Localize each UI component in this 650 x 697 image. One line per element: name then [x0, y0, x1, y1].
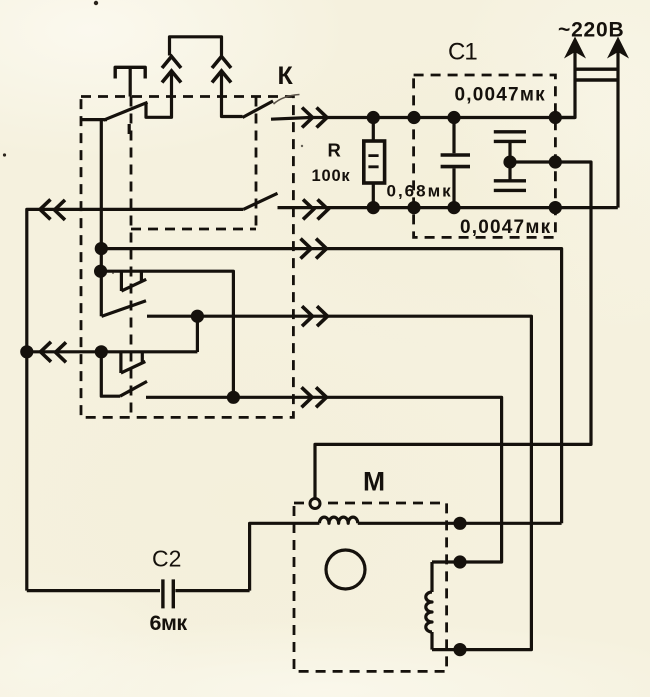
svg-text:~220В: ~220В [558, 19, 624, 42]
svg-text:К: К [278, 62, 294, 90]
svg-text:R: R [328, 140, 341, 161]
svg-text:0,0047мк: 0,0047мк [460, 217, 551, 238]
svg-text:С2: С2 [152, 546, 181, 572]
svg-text:0,0047мк: 0,0047мк [455, 85, 546, 106]
svg-text:100к: 100к [312, 167, 351, 185]
svg-text:6мк: 6мк [150, 611, 188, 635]
svg-text:С1: С1 [448, 39, 477, 66]
svg-text:0,68мк: 0,68мк [387, 182, 453, 201]
svg-text:М: М [363, 467, 385, 497]
